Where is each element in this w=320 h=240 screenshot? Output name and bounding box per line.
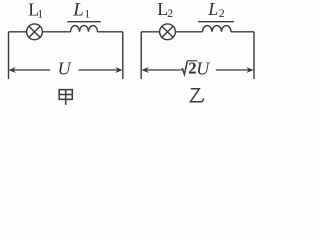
- svg-text:2: 2: [167, 8, 173, 20]
- wire: circuit 1 top conductor, middle segment: [42, 31, 70, 33]
- lamp L1: [27, 24, 43, 40]
- inductor L2 coil: [203, 26, 232, 32]
- caption 甲 (circuit 1): [59, 90, 72, 105]
- label L2 (inductor, italic): [207, 0, 224, 20]
- svg-text:U: U: [196, 59, 210, 79]
- lamp L2: [160, 24, 176, 40]
- wire: circuit 2 left vertical conductor: [140, 32, 142, 79]
- svg-text:L: L: [207, 0, 218, 19]
- voltage arrow sqrt(2)U (left segment with arrowhead): [142, 67, 181, 73]
- label L1 (lamp): [28, 0, 43, 21]
- wire: circuit 2 top conductor, left segment: [141, 31, 159, 33]
- inductor L2 core line: [198, 21, 234, 23]
- svg-text:2: 2: [219, 6, 225, 20]
- svg-text:L: L: [72, 0, 84, 20]
- label L2 (lamp): [157, 0, 173, 20]
- svg-text:U: U: [58, 59, 72, 79]
- voltage arrow sqrt(2)U (right segment with arrowhead): [216, 67, 254, 73]
- voltage arrow U (right segment with arrowhead): [79, 67, 123, 73]
- wire: circuit 1 top conductor, left segment: [9, 31, 27, 33]
- caption 乙 (circuit 2): [190, 89, 203, 102]
- label sqrt(2)U: radical bar: [187, 60, 197, 62]
- label L1 (inductor, italic): [72, 0, 90, 21]
- wire: circuit 1 left vertical conductor: [8, 32, 10, 79]
- svg-text:1: 1: [37, 7, 43, 21]
- wire: circuit 2 top conductor, middle segment: [175, 31, 202, 33]
- inductor L1 core line: [67, 21, 100, 23]
- wire: circuit 2 top conductor, right segment: [231, 31, 254, 33]
- label sqrt(2)U: radical sign: [181, 61, 188, 75]
- wire: circuit 1 top conductor, right segment: [98, 31, 123, 33]
- wire: circuit 2 right vertical conductor: [253, 32, 255, 79]
- voltage arrow U (left segment with arrowhead): [9, 67, 51, 73]
- svg-text:1: 1: [84, 7, 90, 21]
- wire: circuit 1 right vertical conductor: [122, 32, 124, 79]
- inductor L1 coil: [71, 26, 98, 32]
